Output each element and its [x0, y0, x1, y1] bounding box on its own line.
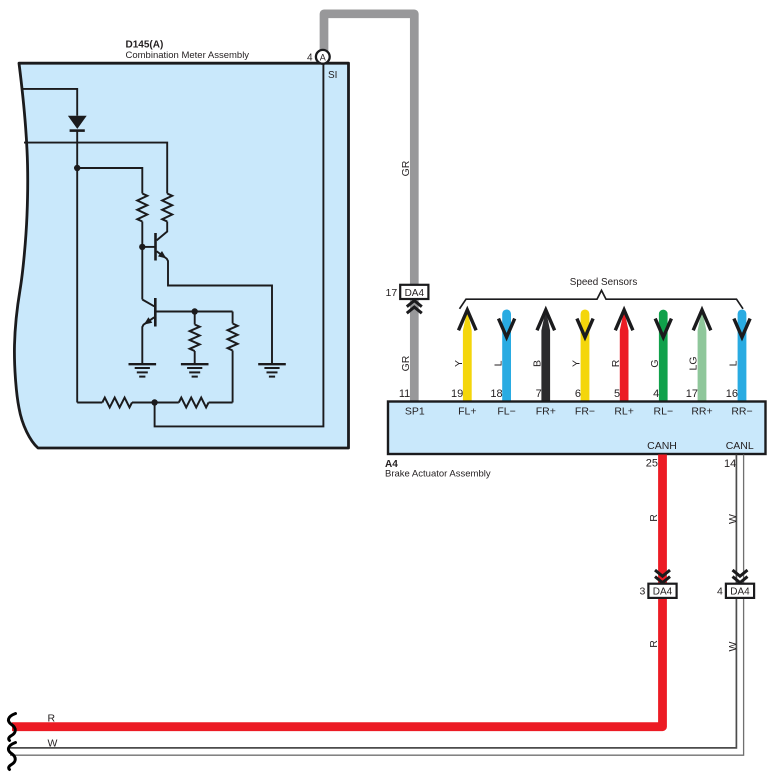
svg-text:A: A — [320, 52, 326, 62]
speed sensor wire FL- (L) — [502, 310, 511, 402]
speed sensor wire RR+ (LG) — [698, 310, 707, 402]
svg-text:SI: SI — [328, 70, 337, 81]
svg-text:FR−: FR− — [575, 406, 595, 418]
svg-text:SP1: SP1 — [405, 406, 425, 418]
svg-text:16: 16 — [726, 388, 738, 400]
svg-text:G: G — [649, 359, 661, 367]
svg-text:B: B — [532, 360, 544, 367]
svg-text:LG: LG — [688, 356, 700, 370]
connector DA4 pin 4 box — [726, 584, 754, 598]
svg-text:DA4: DA4 — [730, 587, 750, 598]
connector DA4 pin 3 box — [648, 584, 676, 598]
svg-text:R: R — [648, 514, 660, 522]
node B junction — [151, 399, 157, 405]
svg-text:DA4: DA4 — [653, 587, 673, 598]
wire Q2 base rail — [155, 311, 232, 313]
svg-text:GR: GR — [400, 355, 412, 371]
svg-text:4: 4 — [653, 388, 659, 400]
svg-text:R: R — [648, 640, 660, 648]
svg-text:7: 7 — [536, 388, 542, 400]
wire R6 to R4 branch — [209, 402, 233, 404]
svg-text:DA4: DA4 — [405, 288, 425, 299]
svg-text:Combination Meter Assembly: Combination Meter Assembly — [126, 50, 250, 61]
wire top feed at y=89 — [21, 89, 77, 116]
svg-text:FR+: FR+ — [536, 406, 556, 418]
wire Q2 collector from base node — [142, 300, 154, 307]
svg-text:5: 5 — [614, 388, 620, 400]
Brake Actuator Assembly A4 box — [388, 402, 766, 455]
speed sensor wire FR- (Y) — [581, 309, 590, 401]
svg-text:4: 4 — [307, 53, 313, 64]
resistor R6 — [179, 398, 209, 408]
svg-text:17: 17 — [386, 287, 398, 299]
wire diode cathode down to node A1 — [76, 131, 78, 403]
wire GR service-connector run (pin 4A to DA4-17) — [324, 14, 414, 285]
transistor Q1 emitter with arrow — [157, 251, 272, 364]
ground G3 — [258, 364, 286, 376]
svg-text:RR−: RR− — [731, 406, 752, 418]
svg-text:19: 19 — [451, 388, 463, 400]
wire break symbol (W) — [8, 743, 15, 770]
transistor Q2 emitter with arrow — [142, 317, 154, 364]
svg-text:L: L — [728, 360, 740, 366]
connector DA4 pin 17 chevrons — [407, 301, 422, 307]
svg-text:17: 17 — [686, 388, 698, 400]
wire break symbol (R) — [8, 714, 15, 741]
svg-text:RL−: RL− — [654, 406, 674, 418]
node Q2 base junction — [192, 308, 198, 314]
wire R5 to node B — [132, 402, 179, 404]
resistor R2 — [162, 194, 172, 222]
svg-text:W: W — [727, 514, 739, 524]
svg-text:Y: Y — [453, 360, 465, 367]
svg-text:CANL: CANL — [726, 440, 754, 452]
wire GR below DA4-17 to Brake Actuator SP1 pin 11 — [410, 297, 419, 402]
node A1 junction — [74, 165, 80, 171]
svg-text:CANH: CANH — [647, 440, 677, 452]
svg-text:L: L — [492, 360, 504, 366]
node Q1 base junction — [139, 244, 145, 250]
wire R2 to Q1 collector — [157, 222, 168, 241]
wire to R3 — [194, 312, 196, 325]
svg-text:Y: Y — [571, 360, 583, 367]
svg-text:11: 11 — [399, 388, 410, 400]
svg-text:RR+: RR+ — [691, 406, 712, 418]
wire R4 down to bottom rail — [232, 351, 234, 403]
speed sensor wire RL+ (R) — [620, 310, 629, 402]
svg-text:18: 18 — [490, 388, 502, 400]
wire R3 to ground G2 — [194, 351, 196, 364]
connector DA4 pin 3 chevrons — [655, 570, 670, 576]
svg-text:R: R — [610, 359, 622, 367]
ground G1 — [129, 364, 157, 376]
wire W CANL run (outline pair) — [10, 455, 736, 748]
resistor R5 — [102, 398, 132, 408]
connector DA4 pin 4 chevrons — [733, 570, 748, 576]
wire to R4 — [232, 312, 234, 324]
svg-text:4: 4 — [717, 586, 723, 598]
transistor Q1 (NPN) bar — [154, 233, 157, 261]
connector DA4 pin 17 box — [400, 285, 428, 299]
svg-text:6: 6 — [575, 388, 581, 400]
wire second horizontal rail y=141.5 — [24, 143, 167, 194]
svg-text:R: R — [48, 713, 56, 725]
svg-text:25: 25 — [646, 458, 658, 470]
svg-text:3: 3 — [640, 586, 646, 598]
speed sensor wire FR+ (B) — [541, 310, 550, 402]
speed sensor wire RR- (L) — [738, 309, 747, 401]
svg-text:Speed Sensors: Speed Sensors — [570, 277, 638, 288]
svg-text:FL+: FL+ — [458, 406, 476, 418]
wire base of Q1 — [142, 246, 155, 248]
speed sensors group bracket — [460, 290, 744, 308]
speed sensor wire FL+ (Y) — [463, 310, 472, 402]
wire bottom rail left segment — [77, 402, 102, 404]
transistor Q2 (NPN) bar — [154, 298, 157, 327]
diode D1 (cathode down) — [68, 116, 87, 129]
svg-text:14: 14 — [724, 458, 736, 470]
svg-text:Brake Actuator Assembly: Brake Actuator Assembly — [385, 469, 491, 480]
wire R1 to Q1 base node — [141, 222, 143, 300]
resistor R4 — [228, 324, 238, 351]
wire node A1 to R1 — [77, 168, 142, 194]
svg-text:W: W — [48, 737, 58, 749]
svg-text:W: W — [727, 641, 739, 651]
svg-text:FL−: FL− — [497, 406, 515, 418]
resistor R1 — [137, 194, 147, 222]
svg-text:RL+: RL+ — [614, 406, 634, 418]
wire SI output run from node B up to pin 4 — [155, 63, 324, 426]
ground G2 — [181, 364, 209, 376]
wire R CANH run — [12, 455, 663, 727]
resistor R3 — [190, 325, 200, 352]
Combination Meter Assembly D145(A) box (torn left edge) — [14, 63, 348, 448]
speed sensor wire RL- (G) — [659, 310, 668, 402]
svg-text:GR: GR — [400, 160, 412, 176]
